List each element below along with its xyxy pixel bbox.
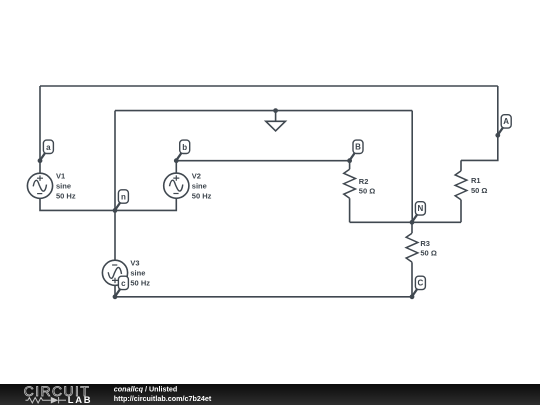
svg-text:sine: sine xyxy=(130,269,145,278)
svg-text:50 Hz: 50 Hz xyxy=(192,192,212,201)
svg-text:conallcq / Unlisted: conallcq / Unlisted xyxy=(114,385,178,394)
svg-text:R1: R1 xyxy=(471,176,481,185)
svg-text:a: a xyxy=(46,143,51,152)
svg-text:R2: R2 xyxy=(359,177,369,186)
svg-text:V3: V3 xyxy=(130,258,139,267)
svg-text:C: C xyxy=(418,279,424,288)
svg-text:50 Hz: 50 Hz xyxy=(56,192,76,201)
svg-text:R3: R3 xyxy=(420,239,430,248)
svg-text:N: N xyxy=(418,204,424,213)
svg-text:50 Ω: 50 Ω xyxy=(420,249,436,258)
svg-text:50 Ω: 50 Ω xyxy=(471,186,487,195)
svg-text:B: B xyxy=(355,143,361,152)
svg-text:sine: sine xyxy=(192,182,207,191)
svg-text:50 Ω: 50 Ω xyxy=(359,187,375,196)
svg-text:A: A xyxy=(503,117,509,126)
svg-text:sine: sine xyxy=(56,182,71,191)
svg-text:n: n xyxy=(121,193,126,202)
svg-text:LAB: LAB xyxy=(68,394,93,405)
svg-text:c: c xyxy=(121,279,126,288)
svg-text:V2: V2 xyxy=(192,171,201,180)
svg-text:http://circuitlab.com/c7b24et: http://circuitlab.com/c7b24et xyxy=(114,394,212,403)
svg-text:50 Hz: 50 Hz xyxy=(130,279,150,288)
svg-text:b: b xyxy=(182,143,187,152)
svg-text:V1: V1 xyxy=(56,171,65,180)
